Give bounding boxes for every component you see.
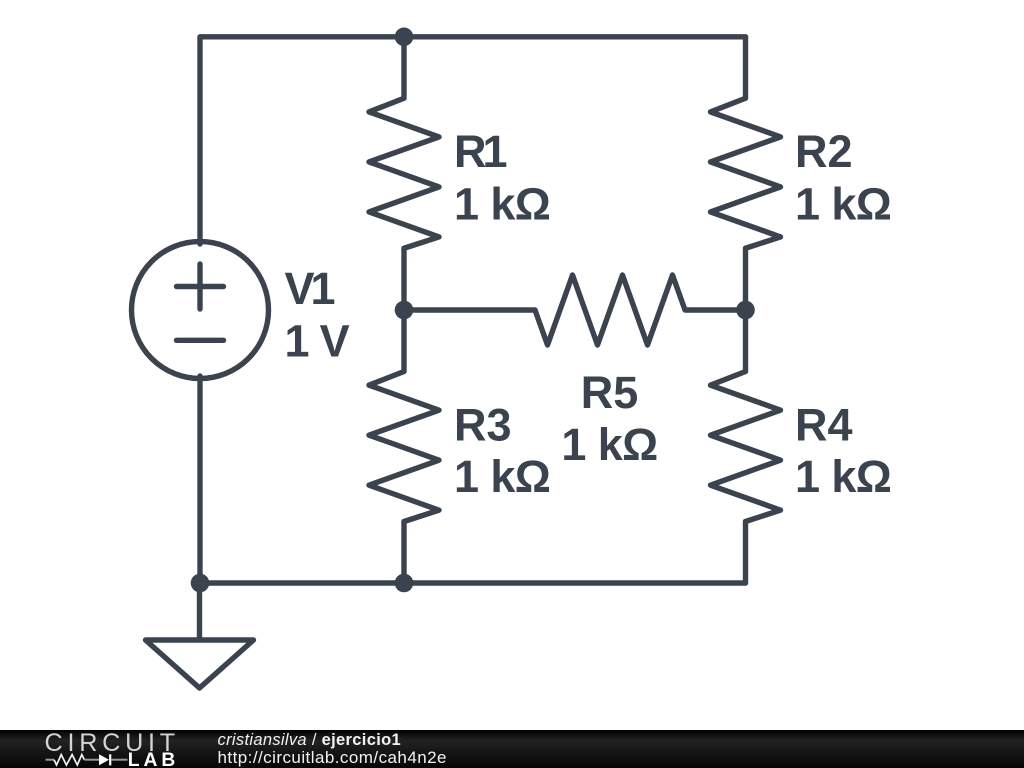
wire: ground node across to node C (bottom of R3) (200, 580, 404, 585)
svg-text:1 kΩ: 1 kΩ (454, 178, 550, 229)
V1 minus sign (177, 338, 224, 343)
ground node junction dot (191, 574, 210, 593)
node D junction dot (R2/R4/R5) (736, 301, 755, 320)
wire: V1 negative terminal down to ground node (197, 376, 202, 583)
svg-text:R3: R3 (454, 399, 512, 450)
node B junction dot (R1/R3/R5) (395, 301, 414, 320)
R4 label: "R4 / 1 kΩ" (795, 399, 891, 502)
resistor R3 (between node B and node C) (369, 310, 439, 583)
wire: node A across to top-right corner (to R2 top) (404, 34, 746, 39)
wire: V1 positive terminal up to top-left corner and across to node A (200, 37, 404, 244)
footer username/title: "cristiansilva / ejercicio1" (218, 731, 402, 749)
svg-text:1 kΩ: 1 kΩ (454, 451, 550, 502)
voltage source V1: circle body (132, 242, 269, 379)
V1 label: "V1 / 1 V" (285, 263, 350, 366)
footer URL: "http://circuitlab.com/cah4n2e" (218, 748, 447, 767)
svg-text:1 kΩ: 1 kΩ (795, 178, 891, 229)
wire: node C across to bottom-right corner (bottom of R4) (404, 580, 746, 585)
svg-text:R2: R2 (795, 126, 853, 177)
svg-text:1 kΩ: 1 kΩ (795, 451, 891, 502)
svg-text:http://circuitlab.com/cah4n2e: http://circuitlab.com/cah4n2e (218, 748, 447, 767)
R3 label: "R3 / 1 kΩ" (454, 399, 550, 502)
svg-text:1 V: 1 V (285, 315, 350, 366)
node A junction dot (top, V1/R1/R2) (395, 28, 414, 47)
svg-text:R1: R1 (454, 126, 506, 177)
footer black bar (0, 730, 1024, 768)
resistor R2 (between top-right corner and node D) (711, 37, 781, 310)
resistor R5 (bridge between node B and node D) (404, 275, 746, 345)
R1 label: "R1 / 1 kΩ" (454, 126, 550, 229)
svg-text:LAB: LAB (128, 750, 180, 768)
svg-text:cristiansilva / ejercicio1: cristiansilva / ejercicio1 (218, 731, 402, 749)
V1 plus sign (177, 264, 224, 309)
CircuitLab logo text "CIRCUIT" (45, 729, 180, 757)
resistor R1 (between node A and node B) (369, 37, 439, 310)
R5 label: "R5 / 1 kΩ" (centered above/below bridge) (561, 367, 657, 470)
svg-text:1 kΩ: 1 kΩ (561, 419, 657, 470)
R2 label: "R2 / 1 kΩ" (795, 126, 891, 229)
node C junction dot (R3/R4 bottom) (395, 574, 414, 593)
CircuitLab logo mini diode symbol (99, 754, 128, 765)
svg-text:R4: R4 (795, 399, 853, 450)
svg-text:V1: V1 (285, 263, 335, 314)
ground symbol (146, 583, 254, 688)
CircuitLab logo mini resistor squiggle (46, 755, 99, 765)
svg-text:R5: R5 (581, 367, 639, 418)
resistor R4 (between node D and bottom-right corner) (711, 310, 781, 583)
CircuitLab logo text "LAB" (128, 750, 180, 768)
